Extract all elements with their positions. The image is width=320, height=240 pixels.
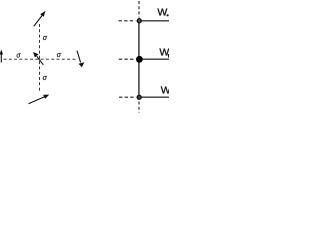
wire: solid level line right of bottom node — [137, 96, 169, 98]
wire: vertical chain line connecting the three nodes — [138, 19, 140, 99]
wire: solid level line right of top node — [137, 20, 169, 22]
wire: dashed vertical above top node — [138, 1, 140, 18]
wire: horizontal dashed bond line (left lattice) — [4, 58, 77, 60]
wire: dashed horizontal into bottom node — [119, 96, 136, 98]
arrow: bottom spin (up-right shallow) — [29, 95, 50, 104]
wire: dashed vertical below bottom node — [138, 102, 140, 113]
svg-text:W: W — [157, 7, 167, 19]
node: bottom site (open circle) — [137, 95, 141, 99]
wire: solid level line right of middle node — [137, 58, 169, 60]
wire: vertical dashed bond line (left lattice) — [39, 24, 41, 91]
wire: dashed horizontal into top node — [119, 20, 136, 22]
arrow: top spin (up-right) — [34, 11, 46, 26]
label: subscript mark of middle level (cut off) — [168, 54, 170, 58]
arrow: left spin (up, cut off at edge) — [0, 50, 3, 63]
arrow: right spin (down-right) — [77, 51, 84, 68]
wire: dashed horizontal into middle node — [119, 58, 135, 60]
svg-text:W: W — [159, 47, 169, 59]
label: subscript mark of top level (cut off) — [167, 14, 169, 16]
arrow: center spin (up-left) — [33, 52, 43, 65]
svg-text:W: W — [161, 85, 169, 97]
node: middle site (filled) — [136, 56, 143, 63]
node: top site (open circle) — [137, 19, 141, 23]
